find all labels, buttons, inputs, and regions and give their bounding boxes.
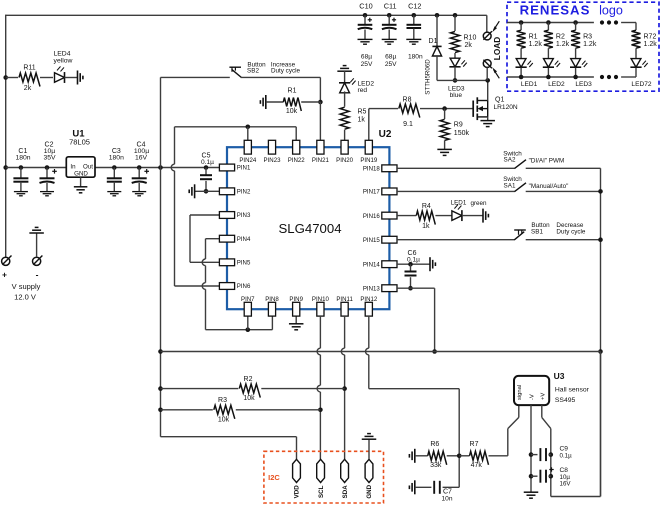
switch SA1 <box>503 176 568 192</box>
wire PIN10/SCL vertical <box>317 316 320 459</box>
svg-text:SA1: SA1 <box>504 182 516 189</box>
svg-text:PIN6: PIN6 <box>237 283 251 290</box>
svg-text:PIN17: PIN17 <box>363 189 381 196</box>
wire PIN17 to SA1 <box>397 190 514 192</box>
svg-text:PIN2: PIN2 <box>237 189 251 196</box>
ground below R9 <box>437 149 452 155</box>
svg-text:PIN21: PIN21 <box>312 157 330 164</box>
i2c dashed box <box>264 451 384 503</box>
svg-text:PIN20: PIN20 <box>336 157 354 164</box>
ground left of R6 <box>409 449 414 463</box>
wire LED2 down <box>547 68 549 77</box>
ground below U3 -V <box>524 492 539 498</box>
wire PIN22 stub <box>295 127 297 141</box>
capacitor C6 <box>405 250 421 288</box>
svg-text:2k: 2k <box>24 85 32 92</box>
wire LED3 down <box>575 68 577 77</box>
svg-text:PIN12: PIN12 <box>360 296 378 303</box>
wire PIN2 row <box>195 190 220 192</box>
resistor R1 <box>266 87 321 115</box>
svg-text:16V: 16V <box>135 154 148 161</box>
node C6 bottom junction <box>408 286 413 291</box>
node rail-A junction <box>158 165 163 170</box>
wire R1 to LED1 <box>520 48 522 58</box>
wire PIN14 row <box>397 263 430 265</box>
wire rail-A to R3 <box>161 409 213 411</box>
svg-text:R6: R6 <box>430 441 439 448</box>
capacitor C3 <box>107 148 124 192</box>
wire right rail vertical <box>600 168 602 496</box>
wire R5 to PIN20 <box>344 130 346 141</box>
svg-text:PIN4: PIN4 <box>237 236 251 243</box>
svg-text:Q1: Q1 <box>495 97 504 104</box>
svg-text:47k: 47k <box>471 462 483 469</box>
wire rail-A to VDD <box>161 437 297 460</box>
svg-text:LED4: LED4 <box>53 51 70 58</box>
transistor Q1 LR120N <box>473 97 518 120</box>
resistor R5 <box>340 107 366 129</box>
svg-text:I2C: I2C <box>268 473 280 482</box>
resistor R2 (logo) <box>544 23 570 49</box>
svg-text:STTH5R06D: STTH5R06D <box>425 59 432 95</box>
wire PIN9 stub <box>295 316 297 324</box>
node D1 junction <box>435 13 440 18</box>
svg-text:+V: +V <box>541 393 547 400</box>
node SB1/right rail <box>598 237 603 242</box>
wire U3 -V down <box>530 405 532 492</box>
svg-text:R2: R2 <box>244 376 253 383</box>
node rail-A/y350 <box>158 349 163 354</box>
resistor R11 <box>6 65 53 93</box>
pin PIN13 <box>363 285 397 293</box>
svg-text:V supply: V supply <box>12 282 41 291</box>
node junction +12V/regulator input <box>3 165 8 170</box>
wire R4 to LED1 <box>435 215 452 217</box>
svg-text:2k: 2k <box>465 42 473 49</box>
wire net PIN3-PIN5 vertical <box>189 215 191 262</box>
label LED1 <box>521 81 538 88</box>
pin PIN20 <box>336 140 354 164</box>
node SA1/right rail <box>598 189 603 194</box>
svg-text:GND: GND <box>74 171 88 178</box>
svg-text:U3: U3 <box>554 371 565 381</box>
svg-text:C11: C11 <box>384 1 397 10</box>
LED LED1 green <box>451 199 487 221</box>
node C5/PIN2 junction <box>204 189 209 194</box>
svg-text:-: - <box>36 270 39 280</box>
wire +12V to U1 In <box>6 167 67 169</box>
pin PIN14 <box>363 261 397 269</box>
svg-text:PIN9: PIN9 <box>289 296 303 303</box>
svg-text:0.1µ: 0.1µ <box>201 159 214 166</box>
node -V/C9 <box>529 452 534 457</box>
wire PIN12 horizontal <box>369 388 459 390</box>
svg-text:+: + <box>2 270 7 280</box>
wire rail-A to R2 <box>161 388 239 390</box>
wire LED2 to R5 <box>344 91 346 106</box>
svg-text:68µ: 68µ <box>385 53 396 60</box>
svg-text:R1: R1 <box>288 87 297 94</box>
node renesas R3 top <box>573 20 578 25</box>
resistor R6 <box>415 441 447 469</box>
wire PIN7/PIN8 row <box>206 329 273 331</box>
svg-text:green: green <box>470 200 487 207</box>
svg-text:R1: R1 <box>529 33 538 40</box>
wire net top horizontal <box>175 126 297 128</box>
node R1/PIN21 junction <box>318 100 323 105</box>
node rail-A/R3 <box>158 408 163 413</box>
ground below C2 <box>40 192 54 196</box>
svg-text:-V: -V <box>530 394 536 400</box>
svg-text:10k: 10k <box>243 395 255 402</box>
connector pin GND <box>365 459 373 498</box>
svg-text:LED1: LED1 <box>451 199 467 206</box>
wire R10 to LED3 <box>454 53 456 58</box>
wire D1/LED3/Q1 row <box>437 79 488 81</box>
wire PIN11/SDA vertical <box>341 316 344 459</box>
node junction +12V/R11 <box>3 75 8 80</box>
wire LED1 down <box>520 68 522 77</box>
svg-text:1k: 1k <box>422 223 430 230</box>
svg-text:SA2: SA2 <box>504 157 516 164</box>
svg-text:PIN23: PIN23 <box>264 157 282 164</box>
wire ground to LED2 <box>344 71 346 83</box>
svg-text:33k: 33k <box>430 462 442 469</box>
svg-text:1.2k: 1.2k <box>556 41 570 48</box>
node PIN24 junction <box>246 125 251 130</box>
svg-text:1.2k: 1.2k <box>644 41 658 48</box>
label V supply <box>2 270 41 302</box>
svg-text:1k: 1k <box>358 117 366 124</box>
wire renesas right bottom rail <box>621 76 636 78</box>
node renesas R1 top <box>519 20 524 25</box>
wire SB1 to right rail <box>526 239 601 241</box>
svg-text:SB1: SB1 <box>531 229 543 236</box>
node R10 junction <box>453 13 458 18</box>
svg-text:SLG47004: SLG47004 <box>278 221 341 236</box>
wire left +12V rail <box>5 15 7 258</box>
resistor R8 <box>399 96 420 128</box>
node renesas LED3 bottom <box>573 75 578 80</box>
wire PIN12 net vertical to divider <box>458 389 460 488</box>
svg-text:C9: C9 <box>560 445 569 452</box>
svg-text:C10: C10 <box>359 1 372 10</box>
wire rail-A to SB2 <box>161 76 230 78</box>
pin PIN16 <box>363 212 397 220</box>
pin PIN1 <box>219 164 251 172</box>
svg-text:12.0 V: 12.0 V <box>14 293 36 302</box>
ground below C4 <box>132 192 146 196</box>
pin PIN18 <box>363 165 397 173</box>
capacitor C4 polarized <box>132 141 150 191</box>
wire PIN7 stub <box>247 316 249 330</box>
svg-text:180n: 180n <box>109 154 124 161</box>
svg-text:PIN1: PIN1 <box>237 165 251 172</box>
wire PIN12 vertical <box>366 316 369 389</box>
wire +5V distribution y350 <box>161 351 601 353</box>
pin PIN11 <box>336 296 353 316</box>
svg-text:PIN19: PIN19 <box>360 157 378 164</box>
svg-text:180n: 180n <box>15 154 30 161</box>
node PIN13/y350 junction <box>432 349 437 354</box>
svg-text:R5: R5 <box>358 109 367 116</box>
wire R9 to ground <box>444 140 446 149</box>
svg-text:R72: R72 <box>644 33 657 40</box>
chip U2 SLG47004 body <box>227 129 392 309</box>
wire R2 to SDA <box>261 388 344 390</box>
ground left of PIN2 wire <box>189 184 194 198</box>
svg-text:150k: 150k <box>454 130 470 137</box>
resistor R9 <box>440 109 469 141</box>
resistor R7 <box>459 441 488 469</box>
node PIN7 junction <box>246 327 251 332</box>
wire PIN16 to R4 <box>397 215 416 217</box>
ground below U1 <box>74 187 88 193</box>
ground below C3 <box>107 192 121 196</box>
svg-text:LR120N: LR120N <box>494 104 518 111</box>
wire top rail to LOAD+ <box>486 15 488 32</box>
wire U1 Out rail to PIN1 <box>95 167 220 169</box>
ground left of C7 <box>409 480 414 494</box>
LED LED1 (logo) <box>516 59 533 68</box>
pin PIN15 <box>363 236 397 244</box>
resistor R72 (logo) <box>632 23 658 49</box>
wire LED1 to ground <box>462 215 483 217</box>
node C4 junction <box>137 165 142 170</box>
terminal LOAD plus <box>483 21 499 40</box>
pin PIN22 <box>288 140 306 164</box>
hall sensor U3 SS495 <box>514 371 590 405</box>
wire LOAD- down <box>486 68 488 81</box>
ellipsis dots bottom <box>600 75 618 79</box>
svg-text:0.1µ: 0.1µ <box>407 257 420 264</box>
svg-text:PIN10: PIN10 <box>312 296 330 303</box>
wire rail-A vertical <box>160 77 162 436</box>
label LED3 <box>575 81 592 88</box>
resistor R1 (logo) <box>517 23 543 49</box>
svg-text:PIN18: PIN18 <box>363 166 381 173</box>
node renesas LED2 bottom <box>546 75 551 80</box>
ground left of R1 <box>260 95 265 109</box>
node +V/C9 <box>549 452 554 457</box>
wire U3 +V down <box>542 405 551 496</box>
wire PIN8 stub <box>271 316 273 330</box>
svg-text:SCL: SCL <box>318 485 325 498</box>
ground below C1 <box>14 192 28 196</box>
svg-text:C7: C7 <box>443 488 452 495</box>
node R2/SDA junction <box>342 386 347 391</box>
ground below PIN9 <box>289 324 304 330</box>
capacitor C12 <box>406 1 423 60</box>
label LED2 <box>548 81 565 88</box>
svg-text:LED2: LED2 <box>548 81 565 88</box>
svg-text:logo: logo <box>599 3 623 17</box>
svg-text:LED1: LED1 <box>521 81 538 88</box>
terminal V+ supply <box>2 256 12 266</box>
pin PIN21 <box>312 140 330 164</box>
wire U1 GND stub <box>80 177 82 187</box>
svg-text:0.1µ: 0.1µ <box>560 452 573 459</box>
svg-text:R8: R8 <box>403 96 412 103</box>
svg-text:LED3: LED3 <box>575 81 592 88</box>
resistor R3 (logo) <box>571 23 597 49</box>
wire V- to ground <box>36 233 38 257</box>
wire LED3 down <box>454 67 456 81</box>
capacitor C11 <box>382 1 397 68</box>
svg-text:9.1: 9.1 <box>403 121 413 128</box>
svg-text:PIN24: PIN24 <box>239 157 257 164</box>
svg-text:Duty cycle: Duty cycle <box>271 68 301 75</box>
wire SA1 to right rail <box>526 190 601 192</box>
capacitor C1 <box>13 148 30 192</box>
wire PIN5 row <box>190 261 220 263</box>
svg-text:U2: U2 <box>379 129 392 140</box>
wire PIN18 to SA2 <box>397 167 514 169</box>
diode D1 STTH5R06D <box>425 15 442 94</box>
svg-text:LED72: LED72 <box>631 81 651 88</box>
ground right of LED4 <box>78 71 83 85</box>
pin PIN8 <box>265 296 279 316</box>
svg-text:SDA: SDA <box>342 485 349 499</box>
wire R2 to LED2 <box>547 48 549 58</box>
node LED3 junction <box>453 78 458 83</box>
node R9 junction <box>442 106 447 111</box>
node -V/C8 <box>529 474 534 479</box>
pin PIN7 <box>241 296 255 316</box>
resistor R10 <box>451 15 477 52</box>
svg-text:PIN16: PIN16 <box>363 213 381 220</box>
svg-text:blue: blue <box>450 92 463 99</box>
wire R7 to U3 signal <box>489 405 519 456</box>
wire R3 to LED3 <box>575 48 577 58</box>
LED LED2 (logo) <box>543 59 560 68</box>
wire R8 to Q1 gate <box>420 108 473 110</box>
wire PIN13 row <box>397 288 435 351</box>
node C2 junction <box>45 165 50 170</box>
pin PIN4 <box>219 235 251 243</box>
node C6 top junction <box>408 262 413 267</box>
svg-text:10n: 10n <box>442 495 453 502</box>
svg-text:R10: R10 <box>464 35 477 42</box>
capacitor C8 polarized <box>531 467 571 488</box>
terminal V- supply <box>33 256 43 266</box>
svg-text:PIN7: PIN7 <box>241 296 255 303</box>
pin PIN10 <box>312 296 330 316</box>
svg-text:SS495: SS495 <box>555 397 576 404</box>
svg-text:SB2: SB2 <box>247 68 259 75</box>
svg-text:R3: R3 <box>218 397 227 404</box>
svg-text:PIN15: PIN15 <box>363 237 381 244</box>
svg-text:78L05: 78L05 <box>69 138 90 147</box>
svg-text:PIN14: PIN14 <box>363 261 381 268</box>
pin PIN24 <box>239 140 257 164</box>
svg-text:PIN5: PIN5 <box>237 260 251 267</box>
connector pin SDA <box>341 459 349 498</box>
wire R72 to LED72 <box>635 48 637 58</box>
wire PIN6 row <box>175 285 221 287</box>
LED LED72 (logo) <box>630 59 647 68</box>
node R3/SCL junction <box>318 408 323 413</box>
LED LED4 <box>53 51 77 83</box>
node C3 junction <box>112 165 117 170</box>
svg-text:R2: R2 <box>556 33 565 40</box>
wire GND pin to ground <box>368 439 370 459</box>
svg-text:25V: 25V <box>361 61 373 68</box>
capacitor C10 <box>358 1 373 68</box>
wire +12V top rail <box>6 14 487 16</box>
svg-text:C8: C8 <box>560 467 569 474</box>
wire PIN19 to R8 <box>369 108 398 110</box>
ground below Q1 <box>480 121 495 127</box>
wire net PIN4-PIN7-PIN8 vertical <box>202 239 205 330</box>
wire PIN24 stub <box>247 127 249 141</box>
renesas logo dashed box <box>507 2 659 91</box>
connector pin VDD <box>293 459 301 498</box>
ground right of LED1 <box>483 209 488 223</box>
button SB2 <box>229 61 300 77</box>
wire Q1 source <box>487 117 489 121</box>
svg-text:D1: D1 <box>429 38 438 45</box>
LED LED2 red <box>339 78 374 94</box>
svg-text:PIN22: PIN22 <box>288 157 306 164</box>
wire renesas bottom rail <box>507 76 594 78</box>
svg-text:68µ: 68µ <box>361 53 372 60</box>
resistor R4 <box>416 203 435 230</box>
wire renesas right top rail <box>621 22 636 24</box>
wire LED72 down <box>635 68 637 77</box>
wire PIN21 stub <box>319 102 321 141</box>
wire net PIN24-PIN22-PIN6 vertical <box>171 127 174 286</box>
svg-text:PIN13: PIN13 <box>363 285 381 292</box>
resistor R2 <box>239 376 260 402</box>
pin PIN2 <box>219 188 251 196</box>
pin PIN17 <box>363 188 397 196</box>
svg-text:R4: R4 <box>422 203 431 210</box>
svg-text:16V: 16V <box>560 481 572 488</box>
ground above V- terminal <box>29 227 43 233</box>
svg-text:LOAD: LOAD <box>492 37 502 61</box>
node R6/R7/C7 junction <box>457 454 462 459</box>
label LOAD <box>492 37 502 61</box>
ground above LED2 <box>337 66 352 72</box>
svg-text:1.2k: 1.2k <box>529 41 543 48</box>
pin PIN19 <box>360 140 378 164</box>
svg-text:Out: Out <box>83 163 93 170</box>
node renesas LED1 bottom <box>519 75 524 80</box>
switch SA2 <box>503 150 564 168</box>
pin PIN12 <box>360 296 378 316</box>
wire PIN19 stub <box>368 109 370 141</box>
wire PIN3 row <box>190 214 220 216</box>
LED LED3 (logo) <box>570 59 587 68</box>
svg-text:red: red <box>358 87 368 94</box>
svg-text:RENESAS: RENESAS <box>520 2 591 17</box>
wire SA2 to right rail <box>526 167 601 169</box>
wire SB2 to PIN21 corner <box>241 77 321 102</box>
node LOAD/Q1 junction <box>485 78 490 83</box>
node C5 junction <box>204 165 209 170</box>
node y350/right rail <box>598 349 603 354</box>
svg-text:PIN3: PIN3 <box>237 212 251 219</box>
capacitor C5 <box>200 152 214 191</box>
pin PIN3 <box>219 212 251 220</box>
wire renesas top rail <box>507 22 594 24</box>
wire PIN4 row <box>206 238 221 240</box>
svg-text:180n: 180n <box>408 53 423 60</box>
svg-text:In: In <box>70 163 76 170</box>
svg-text:R9: R9 <box>454 121 463 128</box>
wire R6 to junction <box>447 455 460 457</box>
